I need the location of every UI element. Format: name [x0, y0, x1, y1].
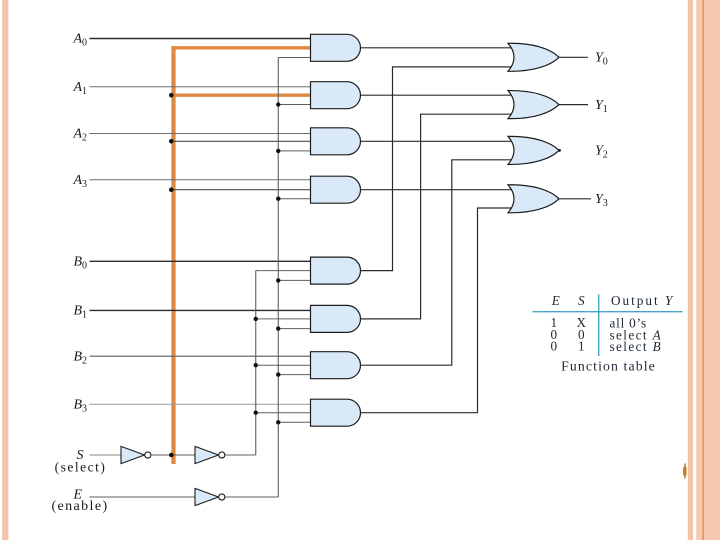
wire input A0 to AND gate 1 [90, 38, 313, 40]
wire E' vertical rail [277, 58, 279, 498]
svg-text:(select): (select) [55, 460, 107, 475]
wire E' from inverter 3 to E vertical [226, 496, 279, 498]
wire OR gate 1 output to Y0 [559, 56, 588, 58]
wire E' branch to AND gate 4 bottom input [278, 198, 312, 200]
wire AND gate 1 output to OR gate 1 top input [360, 47, 513, 49]
function table column rule [598, 295, 600, 357]
wire S' branch to AND gate 3 middle input [171, 140, 313, 142]
inverter 1 (select) [121, 446, 151, 463]
node E' junction at AND gate 6 [276, 326, 280, 330]
node E' junction at AND gate 5 [276, 278, 280, 282]
wire E' branch to AND gate 3 bottom input [278, 150, 312, 152]
node S' vertical to inverter output junction [169, 453, 174, 458]
wire input B1 to AND gate 6 [90, 309, 313, 311]
wire AND gate 6 output to OR gate 2 bottom input [360, 114, 513, 319]
wire AND gate 2 output to OR gate 2 top input [360, 94, 513, 96]
AND gate 6 (input B1) [311, 305, 361, 332]
wire S branch to AND gate 7 middle input [256, 364, 313, 366]
wire AND gate 7 output to OR gate 3 bottom input [360, 160, 513, 365]
node E' junction at AND gate 2 [276, 102, 280, 106]
OR gate 2 (output Y1) [508, 91, 559, 119]
wire S' orange vertical rail [171, 46, 175, 464]
wire AND gate 8 output to OR gate 4 bottom input [360, 208, 513, 413]
wire input A3 to AND gate 4 [90, 179, 313, 181]
AND gate 2 (input A1) [311, 82, 361, 109]
wire E' to AND gate 1 bottom input [278, 57, 312, 59]
wire AND gate 4 output to OR gate 4 top input [360, 189, 513, 191]
wire S' orange branch to AND gate 2 middle input [171, 93, 312, 96]
wire input A2 to AND gate 3 [90, 133, 313, 135]
wire E' branch to AND gate 8 bottom input [278, 421, 312, 423]
wire S vertical rail [255, 271, 257, 455]
function table [551, 293, 675, 374]
OR gate 3 (output Y2) [508, 136, 559, 164]
OR gate 1 (output Y0) [508, 43, 559, 71]
node S junction at AND gate 7 [254, 363, 258, 367]
node S' to AND gate 2 junction [169, 93, 174, 98]
wire E' branch to AND gate 5 bottom input [278, 279, 312, 281]
wire input B0 to AND gate 5 [90, 260, 313, 262]
wire S to AND gate 5 middle input [256, 270, 313, 272]
wire input B3 to AND gate 8 [90, 403, 313, 405]
node E' junction at AND gate 3 [276, 149, 280, 153]
wire S from inverter 2 to S vertical [226, 454, 256, 456]
svg-text:Function table: Function table [561, 359, 656, 374]
node OR gate 3 output stub [558, 149, 561, 152]
wire E input to inverter 3 [90, 496, 196, 498]
node S junction at AND gate 6 [254, 317, 258, 321]
node E' junction at AND gate 4 [276, 197, 280, 201]
wire E' branch to AND gate 2 bottom input [278, 104, 312, 106]
wire S branch to AND gate 6 middle input [256, 318, 313, 320]
AND gate 5 (input B0) [311, 257, 361, 284]
AND gate 3 (input A2) [311, 128, 361, 155]
node E' junction at AND gate 8 [276, 420, 280, 424]
OR gate 4 (output Y3) [508, 185, 559, 213]
AND gate 4 (input A3) [311, 176, 361, 203]
svg-text:0: 0 [551, 339, 558, 354]
svg-text:E: E [551, 293, 560, 308]
wire S' from inverter 1 to inverter 2 [152, 454, 196, 456]
wire E' branch to AND gate 6 bottom input [278, 328, 312, 330]
svg-text:1: 1 [578, 339, 585, 354]
AND gate 8 (input B3) [311, 399, 361, 426]
AND gate 7 (input B2) [311, 352, 361, 379]
node S' to AND gate 3 junction [169, 139, 174, 144]
svg-text:(enable): (enable) [51, 499, 108, 514]
wire input B2 to AND gate 7 [90, 355, 313, 357]
svg-text:select B: select B [610, 339, 663, 354]
AND gate 1 (input A0) [311, 34, 361, 61]
wire AND gate 5 output to OR gate 1 bottom input [360, 67, 513, 271]
wire S' orange branch to AND gate 1 middle input [171, 46, 312, 49]
wire E' branch to AND gate 7 bottom input [278, 374, 312, 376]
wire S branch to AND gate 8 middle input [256, 412, 313, 414]
wire OR gate 2 output to Y1 [559, 104, 588, 106]
node S' to AND gate 4 junction [169, 187, 174, 192]
wire OR gate 4 output to Y3 [559, 198, 591, 200]
wire AND gate 3 output to OR gate 3 top input [360, 140, 513, 142]
svg-text:S: S [578, 293, 585, 308]
wire S input to inverter 1 [90, 454, 122, 456]
inverter 2 (select) [195, 446, 225, 463]
svg-text:Output Y: Output Y [611, 293, 674, 308]
function table header rule [533, 311, 683, 313]
wire input A1 to AND gate 2 [90, 86, 313, 88]
wire S' branch to AND gate 4 middle input [171, 189, 313, 191]
inverter 3 (enable) [195, 488, 225, 505]
node E' junction at AND gate 7 [276, 372, 280, 376]
node S junction at AND gate 8 [254, 411, 258, 415]
